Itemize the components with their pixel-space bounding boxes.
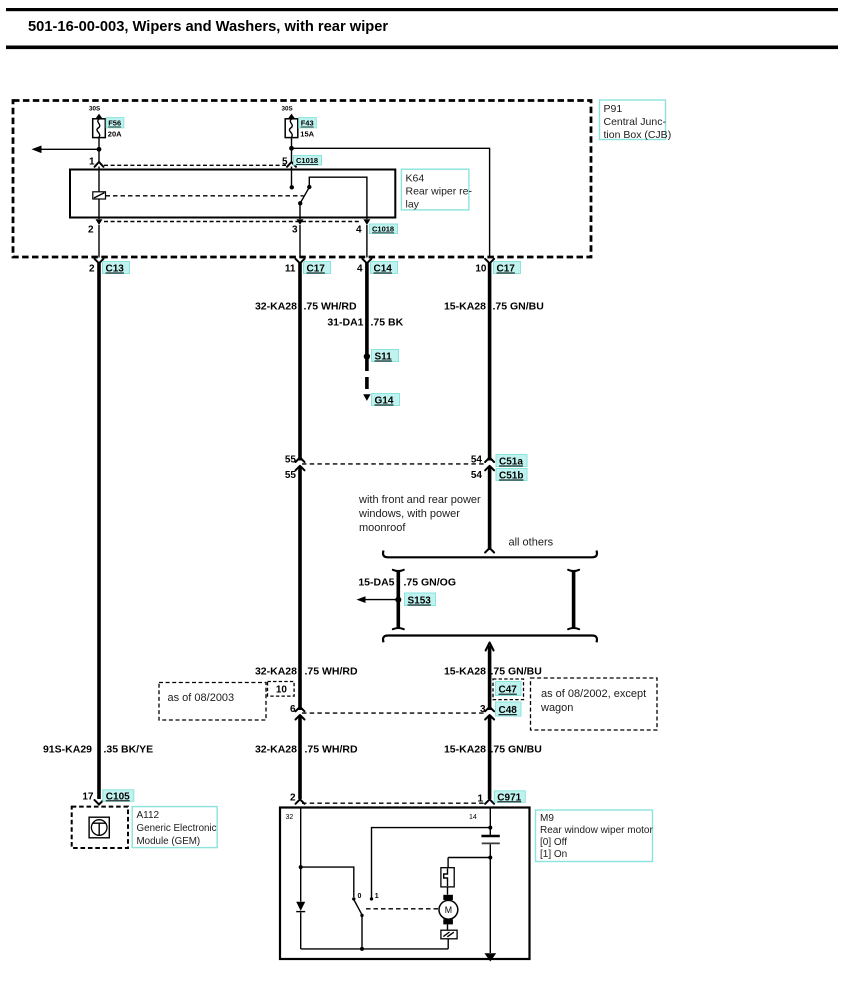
pin 2 exit arrow (96, 219, 103, 225)
option note text (358, 494, 481, 534)
svg-text:C51a: C51a (499, 457, 523, 468)
svg-text:3: 3 (292, 225, 298, 236)
svg-text:M: M (445, 905, 452, 915)
svg-text:A112: A112 (137, 810, 160, 821)
svg-text:C105: C105 (106, 791, 130, 802)
option dashed box: as of 08/2003 (159, 683, 266, 721)
svg-text:2: 2 (89, 264, 95, 275)
chevron into top bracket (485, 548, 494, 553)
svg-text:0: 0 (358, 893, 362, 900)
svg-text:2: 2 (290, 793, 296, 804)
svg-text:lay: lay (406, 199, 420, 211)
svg-text:S153: S153 (408, 596, 432, 607)
C1018 connector dashed line (bottom) (104, 221, 361, 223)
svg-text:6: 6 (290, 704, 296, 715)
svg-text:C1018: C1018 (296, 156, 318, 165)
svg-text:S11: S11 (375, 352, 393, 363)
svg-text:15A: 15A (300, 129, 314, 138)
svg-text:32: 32 (286, 814, 294, 821)
svg-text:32-KA28: 32-KA28 (255, 744, 297, 756)
svg-text:.75 BK: .75 BK (371, 317, 404, 329)
option bracket (bottom) (383, 636, 597, 643)
wire capacitor node to motor branch (448, 858, 490, 868)
svg-text:wagon: wagon (540, 702, 573, 714)
relay coil K64 (93, 192, 106, 199)
wire 31-DA1 to S11 (365, 262, 369, 354)
svg-text:11: 11 (285, 264, 296, 275)
A112 GEM dashed box (72, 807, 128, 848)
svg-text:501-16-00-003, Wipers and Wash: 501-16-00-003, Wipers and Washers, with … (28, 19, 388, 35)
wire 15-KA28 right column lower (488, 717, 492, 800)
svg-text:F43: F43 (301, 119, 314, 128)
wire 32-KA28 center column upper (298, 262, 302, 461)
M9 rear window wiper motor box (280, 808, 530, 960)
wire switch common to bottom rail (361, 915, 363, 949)
C51b label (496, 469, 527, 482)
connector C14 pin 4 chevron (362, 259, 371, 264)
C51a label (496, 455, 527, 468)
relay K64 box (70, 170, 395, 218)
svg-text:.35 BK/YE: .35 BK/YE (104, 744, 154, 756)
C1018 connector dashed line (top) (104, 164, 286, 166)
wire switch common to pin 3 (299, 203, 301, 219)
connector C971 dashed line (302, 802, 486, 804)
svg-text:K64: K64 (406, 173, 425, 185)
svg-text:31-DA1: 31-DA1 (327, 317, 363, 329)
park switch blade (354, 900, 362, 915)
svg-text:30S: 30S (282, 106, 293, 113)
wire breaker to motor brush (447, 887, 449, 895)
ground G14 (363, 394, 370, 401)
svg-text:C14: C14 (374, 264, 393, 275)
svg-text:32-KA28: 32-KA28 (255, 666, 297, 678)
wire S153 to other circuits (left arrow) (364, 599, 398, 601)
svg-text:with front and rear power: with front and rear power (358, 494, 481, 506)
svg-text:as of 08/2003: as of 08/2003 (168, 692, 235, 704)
svg-text:30S: 30S (89, 106, 100, 113)
svg-text:5: 5 (282, 157, 288, 168)
connector C17 pin 11 chevron (296, 259, 305, 264)
A112 module icon (89, 817, 109, 838)
connector C971 pin 1 chevron (485, 799, 494, 804)
K64 label box (401, 169, 472, 210)
F56 label (106, 118, 124, 139)
svg-text:P91: P91 (604, 103, 623, 115)
svg-text:15-KA28: 15-KA28 (444, 744, 486, 756)
svg-text:15-KA28: 15-KA28 (444, 666, 486, 678)
wire pin 1 entry (489, 808, 491, 835)
svg-text:C1018: C1018 (372, 225, 394, 234)
svg-text:4: 4 (356, 225, 362, 236)
svg-text:15-KA28: 15-KA28 (444, 301, 486, 313)
svg-text:[0] Off: [0] Off (540, 837, 567, 848)
fuse F43 (282, 106, 298, 138)
thermal breaker (upper) (441, 868, 454, 887)
svg-text:G14: G14 (375, 396, 394, 407)
pin 5 connector chevron (287, 162, 296, 167)
svg-text:.75 WH/RD: .75 WH/RD (305, 744, 359, 756)
splice S11 (364, 353, 370, 359)
svg-text:55: 55 (285, 455, 297, 466)
option branch wire (right, all others) (572, 571, 576, 629)
svg-text:F56: F56 (108, 119, 121, 128)
svg-text:.75 GN/BU: .75 GN/BU (491, 744, 542, 756)
svg-text:C971: C971 (497, 792, 521, 803)
connector chevrons pin 55 (C51a/C51b) (296, 458, 305, 463)
svg-text:54: 54 (471, 470, 483, 481)
svg-text:all others: all others (509, 537, 554, 549)
wire 32-KA28 center column mid (298, 467, 302, 710)
svg-text:.75 WH/RD: .75 WH/RD (305, 666, 359, 678)
svg-text:windows, with power: windows, with power (358, 508, 460, 520)
svg-text:Rear wiper re-: Rear wiper re- (406, 186, 473, 198)
connector C17 pin 10 chevron (485, 259, 494, 264)
wire contact 1 riser to capacitor node (372, 828, 491, 899)
pin 3 exit arrow (297, 219, 304, 225)
title top rule (6, 8, 838, 11)
splice S153 (395, 597, 401, 603)
svg-text:M9: M9 (540, 813, 554, 824)
relay coil wire pin 1 (98, 167, 100, 220)
svg-text:C47: C47 (499, 685, 518, 696)
svg-text:20A: 20A (108, 129, 122, 138)
pin 1 connector chevron (95, 162, 104, 167)
svg-text:2: 2 (88, 225, 94, 236)
svg-text:32-KA28: 32-KA28 (255, 301, 297, 313)
connector C105 pin 17 chevron (95, 800, 104, 805)
wire 91S-KA29 left column (97, 262, 101, 799)
wire 15-KA28 right column upper (488, 262, 492, 461)
wire NC contact to pin 4 (309, 177, 367, 219)
wire S11 to ground (heavy dashed) (365, 359, 369, 392)
C1018 label (bottom) (370, 224, 398, 234)
bottom rail wire (301, 948, 449, 950)
fuse F56 (89, 106, 105, 138)
diode (dynamic brake) (300, 868, 302, 902)
svg-text:.75 WH/RD: .75 WH/RD (304, 301, 358, 313)
svg-text:10: 10 (276, 685, 288, 696)
motor case ground triangle (484, 953, 496, 961)
wire pin 2 to CJB border (98, 225, 100, 258)
svg-text:.75 GN/BU: .75 GN/BU (491, 666, 542, 678)
svg-text:.75 GN/BU: .75 GN/BU (493, 301, 544, 313)
svg-text:.75 GN/OG: .75 GN/OG (404, 577, 457, 589)
svg-text:1: 1 (375, 893, 379, 900)
option branch wire (left, with moonroof) (396, 571, 400, 629)
svg-text:C51b: C51b (499, 471, 523, 482)
wire F43 to junction and pin 5 (291, 138, 293, 163)
relay switch blade (300, 187, 309, 203)
svg-text:Module (GEM): Module (GEM) (137, 836, 201, 847)
pin 4 exit arrow (363, 219, 370, 225)
svg-text:17: 17 (82, 792, 94, 803)
svg-text:Central Junc-: Central Junc- (604, 116, 667, 128)
wire 32-KA28 center column lower (298, 717, 302, 800)
svg-text:C17: C17 (307, 264, 326, 275)
svg-text:15-DA5: 15-DA5 (358, 577, 394, 589)
motor M9 armature (439, 900, 458, 919)
connector chevrons pin 6 (296, 707, 305, 712)
park switch contact 0 (352, 897, 355, 900)
svg-text:1: 1 (477, 794, 483, 805)
connector C971 pin 2 chevron (296, 799, 305, 804)
wire to other circuits (left arrow) (41, 148, 99, 150)
in-line connector dashed line (C47/C48) (302, 712, 486, 714)
svg-text:91S-KA29: 91S-KA29 (43, 744, 92, 756)
svg-text:4: 4 (357, 264, 363, 275)
svg-text:Rear window wiper motor: Rear window wiper motor (540, 825, 653, 836)
svg-text:1: 1 (89, 157, 95, 168)
option bracket (top) (383, 551, 597, 558)
M9 label box (536, 810, 654, 862)
C48 label (496, 702, 522, 716)
title bottom rule (6, 46, 838, 50)
svg-text:as of 08/2002, except: as of 08/2002, except (541, 688, 646, 700)
relay switch: pin 5 stub and open contact (291, 167, 293, 186)
in-line connector C51a/C51b dashed line (302, 463, 486, 465)
connector chevrons pin 3 (485, 707, 494, 712)
coil-to-contact mechanical dashed link (106, 195, 304, 197)
svg-text:54: 54 (471, 455, 483, 466)
A112 label box (132, 807, 217, 848)
svg-text:10: 10 (475, 264, 487, 275)
option dashed box: as of 08/2002 except wagon (531, 678, 658, 730)
wire F56 to junction and pin 1 (98, 138, 100, 163)
F43 label (299, 118, 317, 139)
park switch contact 1 (370, 897, 373, 900)
C1018 label (top) (294, 156, 322, 166)
node junction F56 output (97, 147, 102, 152)
svg-text:Generic Electronic: Generic Electronic (137, 823, 217, 834)
wire lower element to rail (447, 939, 449, 949)
in-line connector pin 10 dashed boxlet (268, 682, 295, 697)
svg-text:C17: C17 (497, 264, 516, 275)
svg-text:55: 55 (285, 470, 297, 481)
P91 Central Junction Box dashed boundary (13, 101, 591, 258)
wire 15-KA28 right column mid (488, 467, 492, 550)
node junction F43 output (289, 146, 294, 151)
P91 label box (600, 100, 672, 141)
svg-text:14: 14 (469, 814, 477, 821)
wire to motor case ground (489, 858, 491, 954)
capacitor (noise suppression) (481, 835, 499, 837)
svg-text:moonroof: moonroof (359, 522, 406, 534)
chevron out of bottom bracket (486, 643, 494, 651)
svg-text:tion Box (CJB): tion Box (CJB) (604, 129, 672, 141)
wire F43 junction to CJB pin 10 (292, 148, 490, 257)
C47 label in dashed box (493, 679, 524, 700)
svg-text:[1] On: [1] On (540, 849, 567, 860)
wire 15-KA28 right column below brackets (488, 646, 492, 711)
mechanical link dashed (switch to motor) (366, 908, 439, 910)
svg-text:C48: C48 (499, 705, 518, 716)
connector chevrons pin 54 (C51a/C51b) (485, 458, 494, 463)
thermal element (lower) (441, 924, 457, 938)
svg-text:C13: C13 (106, 264, 125, 275)
connector C13 pin 2 chevron (95, 259, 104, 264)
motor M9 brushes (443, 895, 453, 900)
svg-text:3: 3 (480, 704, 486, 715)
wire pin 32 to park switch branch (300, 808, 302, 866)
